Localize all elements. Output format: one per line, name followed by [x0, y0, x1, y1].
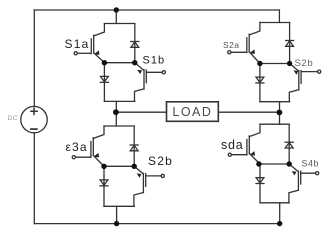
LOAD box	[167, 102, 219, 122]
igbt S4b	[289, 164, 319, 203]
wire top rail	[34, 9, 279, 11]
igbt S1a	[74, 24, 104, 63]
igbt E3a	[72, 126, 104, 166]
junction node cell1 mid right	[132, 60, 137, 65]
junction node cell4 mid right	[287, 161, 292, 166]
dc source V1 circle	[21, 106, 47, 132]
diode D1 (cell1 upper)	[131, 42, 139, 48]
diode D4 (cell2 lower)	[100, 180, 108, 186]
junction node cell2 mid right	[132, 164, 137, 169]
wire stub top rail to cell3	[278, 10, 280, 23]
cell1 bottom wire	[104, 100, 134, 102]
junction node cell3 mid right	[287, 61, 292, 66]
cell2 mid wire	[104, 165, 134, 167]
cell3 upper diode branch wire	[289, 23, 291, 64]
cell2 bottom wire	[104, 205, 134, 207]
junction node top rail	[114, 7, 119, 12]
igbt S2a	[228, 23, 260, 64]
diode D5 (cell3 upper)	[286, 41, 294, 47]
igbt S1b	[135, 63, 166, 102]
junction node bottom rail right	[277, 221, 282, 226]
svg-text:S4b: S4b	[302, 159, 320, 169]
junction node cell1 mid left	[102, 60, 107, 65]
svg-text:sda: sda	[221, 138, 244, 152]
wire bottom rail	[34, 223, 279, 225]
junction node cell4 mid left	[256, 161, 261, 166]
wire left rail lower	[33, 133, 35, 224]
wire left rail upper	[33, 10, 35, 106]
diode D2 (cell1 lower)	[100, 76, 108, 82]
cell2 top wire	[104, 125, 134, 127]
wire cell3 bottom to cell4 top	[279, 102, 281, 125]
svg-text:S2b: S2b	[148, 154, 173, 168]
junction node mid rail right	[277, 110, 283, 116]
svg-text:ε3a: ε3a	[66, 140, 88, 154]
diode D7 (cell4 upper)	[285, 142, 293, 148]
junction node mid rail left	[113, 109, 119, 115]
cell4 lower diode branch wire	[259, 164, 261, 203]
cell3 mid wire	[260, 63, 290, 65]
cell4 upper diode branch wire	[288, 124, 290, 164]
diode D8 (cell4 lower)	[256, 178, 264, 184]
igbt S2b upper-right	[289, 64, 321, 102]
igbt S2b lower-left	[134, 166, 164, 206]
wire stub top rail to cell1	[115, 10, 117, 24]
junction node cell2 mid left	[101, 164, 106, 169]
cell1 mid wire	[104, 62, 134, 64]
svg-text:DC: DC	[8, 115, 18, 122]
dc source minus sign	[31, 128, 37, 130]
wire mid rail left to LOAD	[116, 111, 167, 113]
junction node bottom rail left	[114, 221, 119, 226]
cell1 lower diode branch wire	[103, 63, 105, 102]
svg-text:LOAD: LOAD	[172, 105, 212, 119]
svg-text:S2b: S2b	[295, 58, 314, 69]
diode D6 (cell3 lower)	[256, 77, 264, 83]
junction node cell3 mid left	[257, 61, 262, 66]
svg-text:S2a: S2a	[223, 40, 239, 50]
wire cell4 bottom to rail	[279, 203, 281, 224]
cell3 bottom wire	[260, 101, 290, 103]
cell4 top wire	[260, 123, 289, 125]
cell2 upper diode branch wire	[133, 126, 135, 166]
cell1 upper diode branch wire	[134, 24, 136, 63]
cell4 mid wire	[260, 163, 289, 165]
cell3 top wire	[260, 22, 290, 24]
dc source plus sign	[31, 108, 37, 114]
igbt SDA	[228, 124, 260, 164]
cell4 bottom wire	[260, 202, 289, 204]
diode D3 (cell2 upper)	[130, 145, 138, 151]
svg-text:S1b: S1b	[143, 55, 166, 67]
cell3 lower diode branch wire	[259, 64, 261, 102]
svg-text:S1a: S1a	[65, 37, 90, 51]
cell1 top wire	[104, 23, 134, 25]
wire cell1 bottom to cell2 top	[115, 101, 117, 126]
wire LOAD to right mid node	[218, 111, 279, 113]
cell2 lower diode branch wire	[103, 166, 105, 206]
wire cell2 bottom to rail	[116, 206, 118, 223]
